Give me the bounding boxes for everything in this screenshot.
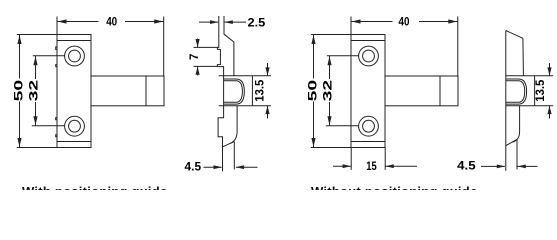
hole bottom outer	[65, 116, 85, 136]
ext 32 top	[33, 55, 65, 57]
sv2 pocket box right	[534, 76, 536, 106]
svg-text:15: 15	[366, 160, 377, 173]
arm division	[145, 76, 147, 106]
guide notch marks on plate left edge	[56, 47, 57, 137]
sv1 bottom wing diagonal	[223, 142, 234, 147]
hole top inner fv2	[363, 50, 375, 62]
ext 15 right	[384, 148, 386, 170]
arrow 50 up	[17, 35, 21, 44]
hole bottom outer fv2	[359, 116, 379, 136]
dim 7 ext top	[194, 46, 218, 48]
dim 50 line fv2	[313, 35, 315, 79]
SIDE VIEW 2 top edge slant	[506, 31, 523, 39]
arrow 40 left fv2	[352, 19, 361, 23]
dim 40 line fv2	[351, 21, 393, 23]
fold line bottom	[57, 141, 91, 143]
sv1 pocket box right side	[251, 76, 253, 106]
arrow 40 right fv2	[448, 19, 457, 23]
arrow 7 down	[196, 39, 200, 47]
sv2 inner D	[506, 81, 525, 103]
arm	[91, 76, 164, 106]
dim 32 line fv2	[329, 56, 331, 79]
arrow 32 down	[33, 116, 37, 125]
sv2 spring curve	[512, 106, 519, 143]
arrow 13.5 up sv1	[265, 106, 269, 114]
svg-text:4.5: 4.5	[457, 160, 476, 173]
ext 32 bottom fv2	[326, 125, 359, 127]
sv1 left profile with guide tabs	[217, 16, 223, 171]
svg-text:13.5: 13.5	[254, 79, 267, 102]
FRONT VIEW 1 plate	[57, 35, 91, 148]
ext 50 top fv2	[311, 34, 351, 36]
dim 7 ext bottom	[194, 65, 218, 67]
sv1 inner D	[224, 81, 243, 103]
svg-text:50: 50	[307, 80, 320, 102]
hole top inner	[69, 50, 81, 62]
svg-text:32: 32	[28, 80, 41, 102]
sv2 blade right slant	[522, 38, 525, 76]
sv2 outer D	[506, 79, 527, 104]
dim 13.5 line sv2	[549, 63, 551, 76]
sv2 left face	[505, 31, 507, 171]
ext 50 bottom fv2	[311, 147, 351, 149]
arrow 40 left	[58, 19, 67, 23]
arrow 2.5 right	[224, 20, 232, 24]
arrow 4.5 rightpoint sv2	[497, 165, 505, 169]
hole top outer	[65, 46, 85, 66]
arrow 4.5 leftpoint sv2	[517, 165, 525, 169]
ext 50 bottom	[17, 147, 57, 149]
ext 40 left fv2	[350, 17, 352, 35]
arrow 32 up fv2	[327, 56, 331, 65]
svg-text:Without positioning guide: Without positioning guide	[311, 184, 477, 190]
fold line bottom fv2	[351, 141, 385, 143]
arrow 32 down fv2	[327, 116, 331, 125]
ext 32 top fv2	[327, 55, 359, 57]
dim 2.5 right shaft	[225, 21, 246, 23]
arrow 13.5 up sv2	[547, 106, 551, 114]
svg-text:With positioning guide: With positioning guide	[22, 184, 167, 190]
sv1 pocket top edge + 13.5 ext	[219, 75, 271, 77]
arrow 4.5 right-point sv1	[214, 165, 222, 169]
hole bottom inner fv2	[363, 120, 375, 132]
svg-text:40: 40	[399, 15, 410, 28]
dim 32 line	[35, 56, 37, 79]
sv1 outer D	[224, 79, 245, 104]
FRONT VIEW 2 plate	[351, 35, 385, 148]
sv2 pocket bottom edge + ext	[506, 105, 553, 107]
dim 13.5 line sv1	[267, 63, 269, 76]
ext line 40 right	[163, 17, 165, 77]
ext 50 top	[17, 34, 57, 36]
sv1 right profile: plate, wing diagonal, wing face	[224, 16, 234, 76]
dim 7 line	[197, 39, 199, 48]
dim 40 line	[57, 21, 99, 23]
svg-text:50: 50	[13, 80, 26, 102]
arrow 7 up	[196, 67, 200, 75]
dim 4.5 left shaft sv1	[204, 166, 222, 168]
dim 4.5 left shaft sv2	[481, 165, 505, 167]
svg-text:13.5: 13.5	[534, 79, 547, 102]
sv2 wing diagonal	[506, 139, 517, 145]
ext 15 left	[350, 148, 352, 170]
dim 15 right shaft	[386, 165, 418, 167]
arrow 50 down fv2	[311, 138, 315, 147]
arrow 15 leftpoint	[385, 164, 393, 168]
dim 50 line	[19, 35, 21, 79]
arrow 4.5 left-point sv1	[236, 165, 244, 169]
arrow 40 right	[154, 19, 163, 23]
svg-text:32: 32	[322, 80, 335, 102]
sv2 wing face + tick	[516, 139, 518, 169]
arrow 50 up fv2	[311, 35, 315, 44]
ext 40 right fv2	[457, 17, 459, 77]
arrow 13.5 down sv2	[547, 67, 551, 75]
arrow 2.5 left	[210, 20, 218, 24]
sv2 pocket top edge + ext	[506, 75, 553, 77]
dim 4.5 right shaft sv1	[236, 166, 258, 168]
sv1 pocket bottom edge + 13.5 ext	[219, 105, 271, 107]
arm fv2	[385, 76, 458, 106]
sv1 bottom wing face + tick	[233, 142, 235, 170]
hole top outer fv2	[359, 46, 379, 66]
fold line top	[57, 40, 91, 42]
svg-text:4.5: 4.5	[185, 160, 202, 173]
dim 4.5 right shaft sv2	[518, 165, 538, 167]
dim 2.5 left shaft	[199, 21, 218, 23]
arrow 13.5 down sv1	[265, 67, 269, 75]
arrow 32 up	[33, 56, 37, 65]
fold line top fv2	[351, 40, 385, 42]
ext line 40 left	[56, 17, 58, 35]
arrow 15 rightpoint	[343, 164, 351, 168]
sv1 spring curve	[230, 106, 237, 144]
svg-text:7: 7	[188, 54, 201, 60]
arrow 50 down	[17, 138, 21, 147]
arm division fv2	[439, 76, 441, 106]
svg-text:40: 40	[106, 15, 117, 28]
ext 32 bottom	[32, 125, 65, 127]
dim 15 left shaft	[333, 165, 351, 167]
svg-text:2.5: 2.5	[248, 16, 266, 29]
hole bottom inner	[69, 120, 81, 132]
